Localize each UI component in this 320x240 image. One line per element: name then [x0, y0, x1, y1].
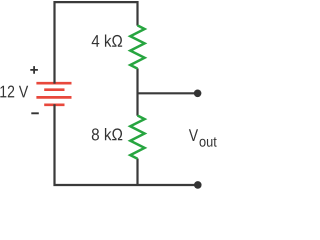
wire: middle tap to Vout terminal — [138, 92, 198, 94]
wire: top loop (left vertical from battery + terminal, top horizontal, right vertical down to R1) — [55, 2, 138, 84]
battery minus sign — [31, 112, 39, 114]
resistor R1 4 kOhm zigzag — [130, 25, 144, 68]
label: 8 kOhm value for R2 — [92, 128, 122, 140]
battery plus sign — [30, 66, 38, 74]
wire: right branch between R1 and R2 — [136, 68, 138, 115]
label: Vout V — [189, 129, 198, 141]
wire: bottom loop (left vertical from battery - terminal, bottom horizontal to output terminal) — [55, 104, 198, 185]
node: Vout terminal dot (middle) — [194, 90, 202, 98]
wire: right branch below R2 to bottom wire — [136, 159, 138, 186]
resistor R2 8 kOhm zigzag — [130, 116, 144, 159]
battery V1 plate 2 (short) — [44, 88, 64, 91]
label: Vout subscript out — [200, 137, 217, 147]
battery V1 plate 1 (long, +) — [36, 82, 71, 85]
battery V1 plate 4 (short, -) — [44, 103, 64, 106]
label: 12 V source value — [0, 86, 28, 98]
battery V1 plate 3 (long) — [36, 96, 71, 99]
node: ground-side terminal dot (bottom right) — [194, 181, 202, 189]
label: 4 kOhm value for R1 — [92, 34, 123, 46]
